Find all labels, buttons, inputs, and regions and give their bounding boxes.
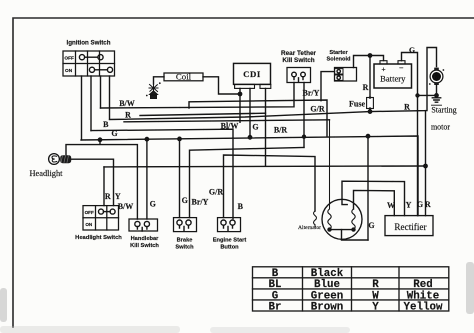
wire name labels xyxy=(103,88,431,211)
svg-text:Brown: Brown xyxy=(311,301,343,313)
svg-text:ON: ON xyxy=(65,68,73,74)
handlebar kill switch S3 xyxy=(129,219,158,231)
svg-text:G: G xyxy=(417,200,423,209)
wire headlight to switch Y xyxy=(71,159,113,205)
node handlebar kill G tap xyxy=(145,138,148,141)
battery terminal minus xyxy=(398,61,405,64)
svg-text:R: R xyxy=(425,200,431,209)
svg-text:Y: Y xyxy=(372,301,379,313)
svg-text:Br/Y: Br/Y xyxy=(303,88,320,97)
node long G junction xyxy=(424,164,427,167)
CDI unit U1 xyxy=(234,63,271,84)
node coil/CDI junction xyxy=(238,92,241,95)
alternator bottom bar xyxy=(330,229,354,231)
svg-text:Rear Tether: Rear Tether xyxy=(281,50,317,57)
wire brake G lead xyxy=(179,139,181,218)
wire mid line into CDI pin3 xyxy=(140,113,266,115)
svg-text:G: G xyxy=(409,46,415,55)
wire ignition B lead down xyxy=(90,76,92,131)
svg-text:R: R xyxy=(105,192,111,201)
node motor ground junction xyxy=(435,94,438,97)
starter solenoid K1 xyxy=(335,68,357,82)
svg-text:Br/Y: Br/Y xyxy=(192,198,209,207)
battery terminal plus xyxy=(380,61,387,64)
svg-text:R: R xyxy=(404,103,410,112)
svg-text:Br: Br xyxy=(269,301,282,313)
svg-text:Starter: Starter xyxy=(329,50,348,56)
svg-text:Bl/W: Bl/W xyxy=(221,122,239,131)
svg-text:B/W: B/W xyxy=(118,202,134,211)
svg-text:Starting: Starting xyxy=(431,106,456,115)
wire ignition B/W lead down xyxy=(100,76,102,108)
svg-text:ON: ON xyxy=(85,222,93,227)
svg-text:motor: motor xyxy=(431,123,450,132)
svg-text:Alternator: Alternator xyxy=(298,225,321,231)
node fuse tap xyxy=(368,54,371,57)
color legend table xyxy=(253,267,449,311)
alternator pickup coil xyxy=(314,211,317,227)
svg-text:Y: Y xyxy=(115,192,121,201)
headlight switch S2 box xyxy=(83,206,119,230)
svg-text:R: R xyxy=(363,83,369,92)
wire alternator center tap to G xyxy=(342,230,369,240)
wire upper branch line to solenoid vertical xyxy=(189,100,327,137)
brake switch S4 xyxy=(174,218,197,232)
headlight switch OFF contacts xyxy=(99,209,104,214)
rectifier U2 xyxy=(385,216,433,236)
coil T1 box xyxy=(164,73,203,81)
svg-text:Battery: Battery xyxy=(380,74,406,84)
wire solenoid to battery plus xyxy=(354,56,384,68)
wire solenoid G/R stub xyxy=(321,72,335,101)
wire handlebar kill G lead xyxy=(146,139,148,219)
svg-text:Headlight: Headlight xyxy=(29,169,63,178)
svg-text:Headlight Switch: Headlight Switch xyxy=(75,235,122,241)
svg-text:Engine Start: Engine Start xyxy=(213,238,247,244)
engine start button S5 xyxy=(218,218,241,232)
svg-text:Button: Button xyxy=(220,244,239,250)
svg-text:+: + xyxy=(381,65,385,74)
wire B/W bus xyxy=(101,83,295,109)
svg-text:W: W xyxy=(387,201,395,210)
wire G bus xyxy=(81,136,418,216)
legend table text xyxy=(269,268,443,313)
svg-text:G/R: G/R xyxy=(209,188,223,197)
svg-text:Solenoid: Solenoid xyxy=(326,57,351,63)
alternator right coil xyxy=(352,209,355,230)
wire tether Br/Y lead down xyxy=(303,83,305,148)
starting motor M1 xyxy=(430,70,443,83)
node battery G vert junction xyxy=(416,94,419,97)
headlight connector xyxy=(60,155,71,163)
wire alternator right coil W xyxy=(354,190,395,215)
svg-text:−: − xyxy=(399,64,404,73)
svg-text:G: G xyxy=(111,129,117,138)
svg-text:Rectifier: Rectifier xyxy=(394,222,426,232)
svg-text:Kill Switch: Kill Switch xyxy=(282,57,314,64)
svg-text:OFF: OFF xyxy=(64,56,74,62)
wire CDI pin3 G xyxy=(249,88,251,137)
svg-text:G: G xyxy=(368,221,374,230)
wire coil HT lead xyxy=(154,77,165,84)
wire CDI pin1 Bl/W xyxy=(239,88,241,122)
svg-text:G: G xyxy=(150,200,156,209)
node headlight tap on G bus xyxy=(98,138,101,141)
rear tether kill switch S6 xyxy=(287,68,311,83)
wire headlight to switch R xyxy=(103,167,105,206)
svg-text:CDI: CDI xyxy=(243,69,261,79)
svg-text:G: G xyxy=(182,196,188,205)
ignition switch S1 box xyxy=(63,51,115,76)
wire brake Br/Y lead xyxy=(190,147,305,217)
spark plug xyxy=(149,84,158,99)
alternator G1 xyxy=(322,199,362,239)
wire coil primary to CDI xyxy=(203,77,240,94)
svg-text:Fuse: Fuse xyxy=(349,100,365,109)
node brake G tap xyxy=(178,137,181,140)
alternator left coil xyxy=(328,120,331,230)
node fuse to R line xyxy=(368,110,371,113)
CDI pin block right xyxy=(260,84,271,88)
fuse F1 xyxy=(367,98,374,109)
wire engine start G/R lead to alternator pickup xyxy=(224,155,316,218)
svg-text:Brake: Brake xyxy=(177,238,193,244)
svg-text:B/R: B/R xyxy=(274,125,288,134)
wire B bus to engine start button xyxy=(91,129,233,218)
ground GND1 xyxy=(432,98,440,102)
node tether crossing blob xyxy=(303,135,306,138)
ignition switch OFF row contacts xyxy=(79,55,84,60)
svg-text:B: B xyxy=(103,120,109,129)
wire battery minus G to motor and rectifier xyxy=(402,53,437,216)
svg-text:Yellow: Yellow xyxy=(404,301,443,313)
svg-text:Y: Y xyxy=(406,201,412,210)
svg-text:G/R: G/R xyxy=(310,104,324,113)
svg-text:Handlebar: Handlebar xyxy=(131,236,160,242)
svg-text:M: M xyxy=(434,74,440,81)
wire Bl/W line CDI to alternator xyxy=(124,120,330,122)
svg-text:B: B xyxy=(238,202,244,211)
wire CDI pin4 long G line to rectifier xyxy=(104,88,426,166)
svg-text:G: G xyxy=(252,122,258,131)
svg-text:R: R xyxy=(125,111,131,120)
wire fuse lead xyxy=(369,56,371,112)
CDI pin block left xyxy=(235,84,255,88)
battery BT1 xyxy=(374,64,412,88)
ignition switch ON row contacts xyxy=(89,67,94,72)
component name labels xyxy=(29,40,456,251)
headlight LP1 xyxy=(49,154,60,165)
wire ignition R lead down xyxy=(109,76,111,119)
svg-text:Ignition Switch: Ignition Switch xyxy=(67,40,111,47)
node CDI G junction xyxy=(248,136,251,139)
svg-text:Kill Switch: Kill Switch xyxy=(130,243,159,249)
headlight filament xyxy=(52,156,57,162)
node alternator G tap xyxy=(366,135,369,138)
wire rectifier R lead xyxy=(425,111,427,216)
scan artifacts xyxy=(0,262,474,333)
wire R bus to fuse and starter motor xyxy=(110,48,437,120)
svg-text:Switch: Switch xyxy=(175,244,194,250)
wire motor to ground xyxy=(436,85,438,98)
svg-text:Coil: Coil xyxy=(176,72,192,82)
wire alternator mid wire Y xyxy=(342,181,405,215)
wire headlight feeder xyxy=(66,140,137,219)
svg-text:B/W: B/W xyxy=(119,99,135,108)
svg-text:OFF: OFF xyxy=(85,210,94,215)
wire alternator G lead xyxy=(367,136,369,240)
wire ignition G lead down xyxy=(81,76,83,140)
